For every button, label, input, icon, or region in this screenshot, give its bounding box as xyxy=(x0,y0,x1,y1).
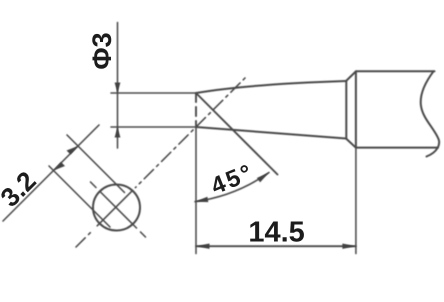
outline: sleeve front edge vertical xyxy=(355,71,357,147)
detail view: band upper side line xyxy=(67,135,125,193)
arrowhead: Phi3 bottom (pointing up) xyxy=(115,127,121,138)
arrowhead: 14.5 right (pointing right) xyxy=(342,244,356,249)
outline: tip cone top edge xyxy=(196,81,346,93)
arrowhead: Phi3 top (pointing down) xyxy=(115,83,121,94)
arrowhead: angle arc top end (pointing up-right) xyxy=(257,173,269,183)
arrowhead: angle arc bottom end (pointing left) xyxy=(195,197,208,202)
outline: 45-degree bevel cut edge xyxy=(196,93,278,175)
detail view: band lower side line xyxy=(49,166,110,227)
outline: sleeve chamfer top xyxy=(346,71,356,81)
svg-text:45°: 45° xyxy=(207,159,258,200)
extension line: sleeve edge down to 14.5 dimension xyxy=(355,148,357,254)
detail view: bevel face ellipse xyxy=(93,185,140,231)
svg-text:14.5: 14.5 xyxy=(248,217,304,249)
outline: sleeve top edge xyxy=(356,70,435,72)
hidden line: bevel face edge (dashed) xyxy=(195,93,197,125)
extension line: tip cylinder bottom (to diameter dimension) xyxy=(111,126,196,128)
arrowhead: 3.2 upper (pointing up-right) xyxy=(67,146,79,155)
outline: cone base vertical edge xyxy=(345,81,347,139)
outline: break line S-curve at sleeve right end xyxy=(421,71,439,156)
arrowhead: 3.2 lower (pointing down-left) xyxy=(54,162,66,171)
dimension line: 14.5 horizontal xyxy=(196,245,356,247)
svg-text:Φ3: Φ3 xyxy=(87,32,117,69)
centerline: detail band axis dash-dot (segment 1) xyxy=(91,182,97,188)
extension line: tip cylinder top (to diameter dimension) xyxy=(111,92,196,94)
dimension line: 3.2 diagonal xyxy=(3,125,99,221)
extension line: tip vertex down to 14.5 dimension xyxy=(195,125,197,254)
outline: sleeve chamfer bottom xyxy=(346,139,356,148)
outline: tip cone bottom edge xyxy=(196,127,346,139)
centerline: dash-dot projection from detail circle to bevel (segment 1) xyxy=(76,238,85,247)
arrowhead: 14.5 left (pointing left) xyxy=(196,244,210,249)
dimension arc: 45-degree angle xyxy=(195,173,269,202)
svg-text:3.2: 3.2 xyxy=(0,166,42,213)
dimension line: Phi3 vertical xyxy=(117,23,119,149)
outline: sleeve bottom edge xyxy=(356,147,438,149)
